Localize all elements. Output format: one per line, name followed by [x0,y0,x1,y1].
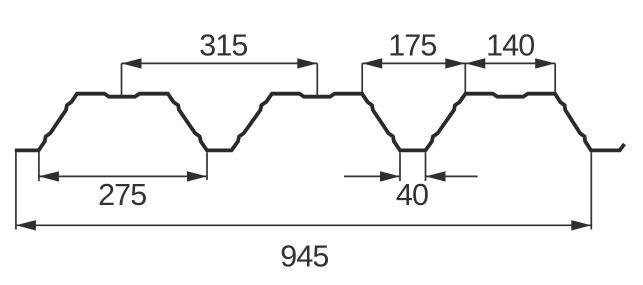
svg-text:275: 275 [98,178,146,212]
svg-text:945: 945 [280,239,328,273]
svg-text:175: 175 [388,28,436,62]
svg-text:315: 315 [199,28,247,62]
svg-text:40: 40 [396,178,428,212]
svg-text:140: 140 [486,28,534,62]
